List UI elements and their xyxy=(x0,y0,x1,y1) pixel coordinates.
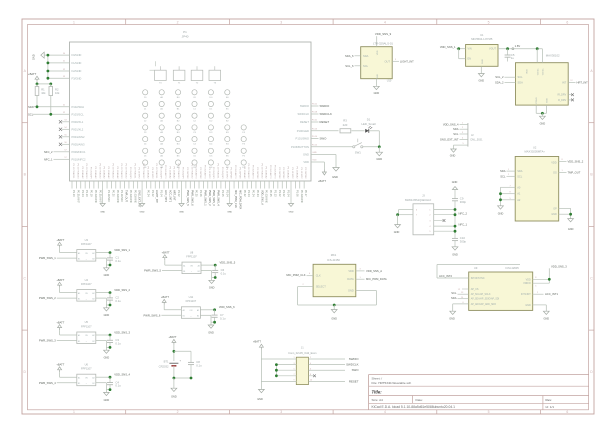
junction C5 tap xyxy=(506,47,509,50)
svg-text:P0.25: P0.25 xyxy=(269,190,272,197)
wire gnd pin xyxy=(201,270,212,272)
svg-text:ACC_INT1: ACC_INT1 xyxy=(545,292,558,296)
ground (P1) xyxy=(333,168,339,172)
svg-text:R_DRV: R_DRV xyxy=(558,99,566,102)
wire F0-F3 gnd bus xyxy=(44,54,69,56)
ground (U5) xyxy=(105,347,107,350)
resistor R3 xyxy=(311,130,339,132)
wire gnd pin xyxy=(200,314,211,316)
wire A0 A1 A2 to gnd xyxy=(501,186,516,188)
ground (SW1) xyxy=(378,147,380,152)
svg-text:P010/NFC2: P010/NFC2 xyxy=(72,157,87,161)
svg-text:P1.03/TRACE2: P1.03/TRACE2 xyxy=(190,164,193,180)
svg-text:SWDIO: SWDIO xyxy=(349,357,360,361)
junction J1 gnd pins xyxy=(275,363,278,366)
svg-text:P1.11/NFC: P1.11/NFC xyxy=(120,190,123,202)
svg-text:SWDCLK: SWDCLK xyxy=(346,363,358,367)
svg-text:B2: B2 xyxy=(198,271,200,273)
svg-text:R1: R1 xyxy=(41,87,45,91)
svg-text:P0.06/UART0: P0.06/UART0 xyxy=(252,165,255,179)
svg-text:GNG_EXT_INT: GNG_EXT_INT xyxy=(138,190,141,208)
svg-text:P1.15/SPI2: P1.15/SPI2 xyxy=(151,167,153,179)
svg-text:PWR_SWS_1: PWR_SWS_1 xyxy=(39,256,56,260)
svg-text:RESET: RESET xyxy=(320,120,330,124)
svg-text:P0.29/PDM: P0.29/PDM xyxy=(282,167,284,178)
svg-text:0.1u: 0.1u xyxy=(115,342,121,346)
svg-text:P1.13: P1.13 xyxy=(72,190,75,197)
svg-text:VDD_SNS_1: VDD_SNS_1 xyxy=(114,248,130,252)
svg-text:P1.05: P1.05 xyxy=(221,190,224,197)
svg-text:VLED+: VLED+ xyxy=(537,68,539,76)
svg-text:Size: A4: Size: A4 xyxy=(372,398,384,402)
svg-text:P0.29/PDM: P0.29/PDM xyxy=(199,167,201,178)
svg-text:1.8V: 1.8V xyxy=(515,44,521,48)
svg-text:2: 2 xyxy=(177,20,179,24)
svg-text:P0.19: P0.19 xyxy=(90,190,93,197)
svg-text:1: 1 xyxy=(73,410,75,414)
wire J3 left pins xyxy=(399,209,413,211)
svg-text:SCL: SCL xyxy=(500,174,506,178)
switch SW1 xyxy=(311,146,353,148)
svg-text:ACC_INT1: ACC_INT1 xyxy=(168,190,171,203)
sensor U2 MAX30205 xyxy=(515,157,559,222)
svg-text:FPF1107: FPF1107 xyxy=(81,324,92,328)
svg-text:PGND: PGND xyxy=(536,97,538,104)
node VDD_SNS_1 xyxy=(96,252,110,254)
svg-text:P0.06/UART0: P0.06/UART0 xyxy=(203,165,206,179)
svg-text:GND: GND xyxy=(312,152,317,154)
svg-text:GND: GND xyxy=(376,157,382,161)
ground (U1) xyxy=(480,66,482,73)
svg-text:PWR_SWS_3: PWR_SWS_3 xyxy=(39,339,56,343)
svg-text:7: 7 xyxy=(293,374,294,376)
svg-text:P0.06/UART0: P0.06/UART0 xyxy=(164,165,167,179)
wire vin xyxy=(59,248,61,253)
svg-text:SDA_2: SDA_2 xyxy=(495,80,504,84)
svg-text:CR2032: CR2032 xyxy=(159,364,169,368)
svg-text:P0.13/ANA2: P0.13/ANA2 xyxy=(295,166,298,179)
svg-text:P0.24: P0.24 xyxy=(256,190,259,197)
sensor U9 ICM-42605 xyxy=(469,272,533,310)
wire gnd pin xyxy=(96,340,107,342)
svg-text:P0.02/AIN0: P0.02/AIN0 xyxy=(300,190,303,203)
svg-text:FPF1107: FPF1107 xyxy=(81,282,92,286)
svg-text:P1.03/TRACE2: P1.03/TRACE2 xyxy=(247,164,250,180)
regulator U1 MIC5504 xyxy=(466,45,498,67)
svg-text:P1.10/TRACE1: P1.10/TRACE1 xyxy=(133,164,136,180)
svg-text:A1: A1 xyxy=(183,309,185,312)
svg-text:GND: GND xyxy=(100,212,105,214)
svg-text:P1.15/SPI2: P1.15/SPI2 xyxy=(138,167,140,179)
svg-text:VDD: VDD xyxy=(526,278,531,281)
svg-text:+BATT: +BATT xyxy=(318,179,326,183)
svg-text:MAX30205MTA+: MAX30205MTA+ xyxy=(525,149,546,153)
svg-text:KiCad E.D.A. kicad 5.1.10-88a: KiCad E.D.A. kicad 5.1.10-88a5d61e5088ub… xyxy=(372,405,456,409)
svg-text:P1.04: P1.04 xyxy=(247,190,250,197)
capacitor C10 xyxy=(452,237,458,239)
svg-text:VDD: VDD xyxy=(527,69,529,74)
svg-text:PWR_SWS_4: PWR_SWS_4 xyxy=(217,190,220,206)
svg-text:SCL: SCL xyxy=(28,113,34,117)
svg-text:ACC_INT2: ACC_INT2 xyxy=(439,274,452,278)
svg-text:P0.06/UART0: P0.06/UART0 xyxy=(234,165,237,179)
svg-text:OS: OS xyxy=(553,170,557,174)
svg-text:P1.15/SPI2: P1.15/SPI2 xyxy=(208,167,210,179)
svg-text:SDA: SDA xyxy=(517,169,523,173)
svg-text:FPF1107: FPF1107 xyxy=(186,299,197,303)
svg-text:P1.00/TRACE0: P1.00/TRACE0 xyxy=(76,164,79,180)
svg-text:P000/XL1: P000/XL1 xyxy=(72,120,84,124)
svg-text:GND: GND xyxy=(332,175,338,179)
svg-text:Conn_02x05_Odd_Even: Conn_02x05_Odd_Even xyxy=(288,351,317,355)
svg-text:+BATT: +BATT xyxy=(169,335,177,339)
wire pullup rail xyxy=(37,83,51,85)
svg-text:P0.29/PDM: P0.29/PDM xyxy=(304,167,306,178)
node VDD_SNS_5 xyxy=(201,264,215,266)
svg-text:P0.21: P0.21 xyxy=(312,120,318,122)
wire SELECT to gnd xyxy=(298,286,314,288)
junction NFC bus xyxy=(454,208,457,211)
svg-text:VLED+: VLED+ xyxy=(543,68,545,76)
svg-text:FPF1107: FPF1107 xyxy=(81,367,92,371)
svg-text:GND: GND xyxy=(450,155,456,158)
svg-text:4: 4 xyxy=(384,410,386,414)
svg-text:PWR_SWS_6: PWR_SWS_6 xyxy=(190,190,193,206)
svg-text:U4: U4 xyxy=(85,278,89,282)
svg-text:MIC_PDM_DATA: MIC_PDM_DATA xyxy=(366,277,387,281)
svg-text:P0.13/ANA2: P0.13/ANA2 xyxy=(265,166,268,179)
svg-text:P0.02/AIN0: P0.02/AIN0 xyxy=(94,190,97,203)
svg-text:P1.00/TRACE0: P1.00/TRACE0 xyxy=(120,164,123,180)
svg-text:A2: A2 xyxy=(517,198,521,202)
svg-text:P0.02/AIN0: P0.02/AIN0 xyxy=(129,190,132,203)
svg-text:PWR_SWS_2: PWR_SWS_2 xyxy=(39,296,56,300)
svg-text:NFC_2: NFC_2 xyxy=(44,150,53,154)
capacitor C4 xyxy=(109,377,111,382)
svg-text:+BATT: +BATT xyxy=(56,238,64,242)
svg-text:B1: B1 xyxy=(183,271,185,273)
svg-text:P0.13/ANA2: P0.13/ANA2 xyxy=(173,166,176,179)
svg-text:U5: U5 xyxy=(85,320,89,324)
svg-text:INT1/INT: INT1/INT xyxy=(521,293,531,296)
P1 castellated pad grid xyxy=(143,90,148,95)
svg-text:P0.31/AIN7: P0.31/AIN7 xyxy=(98,190,101,203)
ground (C10) xyxy=(452,247,458,250)
svg-text:HRT_INT: HRT_INT xyxy=(577,80,589,84)
svg-text:P0.29/PDM: P0.29/PDM xyxy=(256,167,258,178)
svg-text:P0.29/PDM: P0.29/PDM xyxy=(186,167,188,178)
svg-text:PWR_SWS_4: PWR_SWS_4 xyxy=(39,381,56,385)
svg-text:U11: U11 xyxy=(189,295,194,299)
svg-text:P1.03/TRACE2: P1.03/TRACE2 xyxy=(125,164,128,180)
svg-text:F3/GND: F3/GND xyxy=(72,76,82,80)
svg-text:P0.26/QSPI: P0.26/QSPI xyxy=(221,167,223,179)
junction xyxy=(378,145,381,148)
svg-text:P0.13/ANA2: P0.13/ANA2 xyxy=(146,166,149,179)
svg-text:VDD_SNS_2: VDD_SNS_2 xyxy=(114,288,130,292)
svg-text:GND: GND xyxy=(171,395,177,398)
wire EN xyxy=(458,49,460,59)
wire VDD/VDDIO xyxy=(533,278,550,280)
svg-text:GND: GND xyxy=(479,79,485,82)
svg-text:FPF1107: FPF1107 xyxy=(186,255,197,259)
ground (U9 left) xyxy=(450,311,456,314)
ground (MK1) xyxy=(333,305,335,310)
svg-text:P0.02/AIN0: P0.02/AIN0 xyxy=(133,190,136,203)
svg-text:300p: 300p xyxy=(460,240,467,244)
svg-text:F2/GND: F2/GND xyxy=(72,69,82,73)
svg-text:MIC_PDM_CLK: MIC_PDM_CLK xyxy=(234,190,237,208)
svg-text:PWR_SWS_5: PWR_SWS_5 xyxy=(144,269,161,273)
svg-text:P100/LED: P100/LED xyxy=(297,129,309,133)
svg-text:VDD_SNS_3: VDD_SNS_3 xyxy=(551,264,567,268)
svg-text:SCL_6: SCL_6 xyxy=(345,64,354,68)
svg-text:P0.20: P0.20 xyxy=(111,190,114,197)
svg-text:SDA: SDA xyxy=(453,127,459,131)
wire gnd pin xyxy=(96,382,107,384)
svg-text:A1: A1 xyxy=(78,376,80,379)
svg-text:A2: A2 xyxy=(197,309,199,312)
svg-text:P1.02: P1.02 xyxy=(278,190,281,197)
connector P1 (JP40 module) xyxy=(70,42,312,181)
svg-text:GND: GND xyxy=(179,212,184,214)
svg-text:P1.04: P1.04 xyxy=(81,190,84,197)
svg-text:1: 1 xyxy=(73,20,75,24)
svg-text:P0.18: P0.18 xyxy=(312,112,318,114)
svg-text:INT2/FSYNC: INT2/FSYNC xyxy=(471,277,485,280)
svg-text:P1.11/NFC: P1.11/NFC xyxy=(107,190,110,202)
svg-text:P0.13/ANA2: P0.13/ANA2 xyxy=(107,166,110,179)
P1 test pads T0-T3 xyxy=(155,70,167,80)
svg-text:1u: 1u xyxy=(511,56,515,60)
svg-text:P0.25: P0.25 xyxy=(195,190,198,197)
svg-text:B1: B1 xyxy=(78,298,80,300)
svg-text:A1: A1 xyxy=(517,192,521,196)
svg-text:B2: B2 xyxy=(92,258,94,260)
svg-text:+BATT: +BATT xyxy=(28,72,37,76)
svg-text:U2: U2 xyxy=(533,145,537,149)
junction xyxy=(396,213,399,216)
svg-text:GND: GND xyxy=(140,212,145,214)
svg-text:AP_SDA/AP_SDIO/AP_SDI: AP_SDA/AP_SDIO/AP_SDI xyxy=(471,298,500,301)
svg-text:DNL_5031: DNL_5031 xyxy=(471,139,484,142)
node VDD_SNS_6 xyxy=(200,309,214,311)
svg-text:VDD: VDD xyxy=(551,160,557,164)
svg-text:P1.15/SPI2: P1.15/SPI2 xyxy=(291,167,293,179)
svg-text:R3: R3 xyxy=(343,119,347,123)
connector J3 NFC xyxy=(413,204,434,235)
svg-text:B2: B2 xyxy=(92,383,94,385)
svg-text:S9453-05S1Q1ECHLF: S9453-05S1Q1ECHLF xyxy=(405,198,432,202)
wire VLED supplies xyxy=(536,49,538,63)
svg-text:DATA: DATA xyxy=(347,277,354,281)
svg-text:P1.03/TRACE2: P1.03/TRACE2 xyxy=(98,164,101,180)
svg-text:BT1: BT1 xyxy=(164,360,169,364)
svg-text:VOUT: VOUT xyxy=(489,48,496,51)
junction A pins xyxy=(499,192,502,195)
svg-text:SDA: SDA xyxy=(363,54,369,58)
svg-text:P1.15/SPI2: P1.15/SPI2 xyxy=(225,167,227,179)
svg-text:RESET: RESET xyxy=(349,379,359,383)
svg-text:AP_SCL/AP_SCLK: AP_SCL/AP_SCLK xyxy=(471,293,491,296)
junction gnd rail xyxy=(333,304,336,307)
svg-text:0.1u: 0.1u xyxy=(115,259,121,263)
ground (U10) xyxy=(375,79,377,87)
svg-text:A1: A1 xyxy=(78,252,80,255)
svg-text:P0.13/ANA2: P0.13/ANA2 xyxy=(243,166,246,179)
svg-text:ICM-42605: ICM-42605 xyxy=(506,266,520,270)
svg-text:VDD_SNS_A: VDD_SNS_A xyxy=(260,190,263,205)
svg-text:A1: A1 xyxy=(183,264,185,267)
wire LED to junction xyxy=(370,130,380,132)
svg-text:1: 1 xyxy=(293,357,294,359)
svg-text:P0.06/UART0: P0.06/UART0 xyxy=(269,165,272,179)
svg-text:SWO: SWO xyxy=(320,137,328,141)
wire J1 left rail xyxy=(260,350,262,390)
wire vin xyxy=(164,260,166,265)
junction xyxy=(109,304,112,307)
svg-text:P1.04: P1.04 xyxy=(225,190,228,197)
wire vin xyxy=(59,288,61,293)
svg-text:P102/SDA: P102/SDA xyxy=(72,105,85,109)
svg-text:A2: A2 xyxy=(92,334,94,337)
wire AP_ADO to gnd xyxy=(453,303,469,305)
svg-text:ICS-41350: ICS-41350 xyxy=(327,258,340,262)
power +BATT (P1 VDD) xyxy=(311,161,324,163)
svg-text:Rev:: Rev: xyxy=(546,398,553,402)
svg-text:B2: B2 xyxy=(92,341,94,343)
svg-text:P103/SCL: P103/SCL xyxy=(72,112,85,116)
ground (J1) xyxy=(259,389,265,392)
svg-text:MIC_PDM_CLK: MIC_PDM_CLK xyxy=(286,273,305,277)
svg-text:A2: A2 xyxy=(92,292,94,295)
ground (U6) xyxy=(105,390,107,393)
svg-text:P0.13: P0.13 xyxy=(312,128,318,130)
svg-text:GP: GP xyxy=(553,207,557,210)
junction xyxy=(214,276,217,279)
svg-text:GND: GND xyxy=(498,212,504,215)
svg-text:VDD_SNS_4: VDD_SNS_4 xyxy=(114,373,130,377)
svg-text:VDD_SNS_5: VDD_SNS_5 xyxy=(220,261,236,265)
svg-text:P1.02: P1.02 xyxy=(282,190,285,197)
capacitor C9 xyxy=(454,190,456,199)
svg-text:NFC_1: NFC_1 xyxy=(459,222,468,226)
svg-text:P101/SWO: P101/SWO xyxy=(296,137,309,141)
svg-text:PWR_SWS_6: PWR_SWS_6 xyxy=(144,313,161,317)
wire battery bottom xyxy=(174,377,191,379)
op-amp U10 (LTR-329ALS-01 light sensor) xyxy=(361,47,393,79)
svg-text:+BATT: +BATT xyxy=(162,251,170,255)
svg-text:P106/BUTTON: P106/BUTTON xyxy=(291,145,309,149)
svg-text:SWDCLK: SWDCLK xyxy=(320,112,332,116)
svg-text:5: 5 xyxy=(488,410,490,414)
svg-text:GND: GND xyxy=(568,228,574,231)
junction VDD rail xyxy=(536,47,539,50)
svg-text:10k: 10k xyxy=(55,91,60,95)
svg-text:GND: GND xyxy=(209,287,215,290)
svg-text:P1.00/TRACE0: P1.00/TRACE0 xyxy=(177,164,180,180)
svg-text:U9: U9 xyxy=(474,266,478,270)
svg-text:6: 6 xyxy=(566,410,568,414)
svg-text:B2: B2 xyxy=(197,316,199,318)
svg-text:PWR_SWS_2: PWR_SWS_2 xyxy=(208,190,211,206)
svg-text:VDDIO: VDDIO xyxy=(523,282,531,285)
wire SWDCLK xyxy=(311,113,319,115)
wire gnd pin xyxy=(96,297,107,299)
svg-text:R2: R2 xyxy=(55,87,59,91)
resistor R2 xyxy=(50,84,52,87)
svg-text:P0.02/AIN0: P0.02/AIN0 xyxy=(116,190,119,203)
svg-text:RESET: RESET xyxy=(300,120,309,124)
svg-text:IR_DRV: IR_DRV xyxy=(557,94,566,97)
svg-text:P1.04: P1.04 xyxy=(160,190,163,197)
svg-text:P0.24: P0.24 xyxy=(252,190,255,197)
wire gnd pin xyxy=(96,257,107,259)
svg-text:SW1: SW1 xyxy=(355,150,362,154)
title block xyxy=(369,374,589,376)
wire vin xyxy=(59,372,61,377)
svg-text:P0.13/ANA2: P0.13/ANA2 xyxy=(81,166,84,179)
svg-text:3: 3 xyxy=(280,20,282,24)
svg-text:P0.14: P0.14 xyxy=(312,136,318,138)
svg-text:File: HRT5340-Wearable.sch: File: HRT5340-Wearable.sch xyxy=(372,381,412,385)
capacitor C1 xyxy=(109,253,111,258)
svg-text:GND: GND xyxy=(104,274,110,277)
svg-text:P0.15: P0.15 xyxy=(312,144,318,146)
wire P1 GND pin xyxy=(311,154,336,156)
svg-text:P0.26/QSPI: P0.26/QSPI xyxy=(129,167,131,179)
junction xyxy=(457,47,460,50)
svg-text:LED_Small: LED_Small xyxy=(362,122,376,126)
svg-text:GND: GND xyxy=(452,253,458,256)
junction SDA xyxy=(36,105,39,108)
ground (U8) xyxy=(211,278,213,281)
junction dots F bus xyxy=(47,54,50,57)
svg-text:GND: GND xyxy=(104,399,110,402)
svg-text:3: 3 xyxy=(293,363,294,365)
svg-text:5: 5 xyxy=(293,368,294,370)
svg-text:B2: B2 xyxy=(92,298,94,300)
svg-text:U8: U8 xyxy=(190,250,194,254)
svg-text:GND: GND xyxy=(551,213,557,216)
svg-text:VDD_SNS_6: VDD_SNS_6 xyxy=(219,305,235,309)
svg-text:P1.03/TRACE2: P1.03/TRACE2 xyxy=(260,164,263,180)
svg-text:F0/GND: F0/GND xyxy=(72,53,82,57)
capacitor C7 xyxy=(214,310,216,315)
svg-text:HRT_INT: HRT_INT xyxy=(173,190,176,201)
svg-text:OUT: OUT xyxy=(385,59,391,63)
svg-text:P005/AIN3: P005/AIN3 xyxy=(72,142,86,146)
svg-text:A2: A2 xyxy=(198,264,200,267)
svg-text:3: 3 xyxy=(280,410,282,414)
svg-text:VDD: VDD xyxy=(348,269,354,273)
wire vin xyxy=(163,305,165,310)
svg-text:MK1: MK1 xyxy=(331,253,337,257)
svg-text:P1.10/TRACE1: P1.10/TRACE1 xyxy=(217,164,220,180)
svg-text:Id: 1/1: Id: 1/1 xyxy=(546,405,555,409)
svg-text:EN: EN xyxy=(468,58,472,61)
svg-text:GND: GND xyxy=(377,74,379,79)
svg-text:U10: U10 xyxy=(387,80,392,83)
ground (U3) xyxy=(105,265,107,268)
svg-text:Sheet: /: Sheet: / xyxy=(372,376,383,380)
svg-text:2: 2 xyxy=(177,410,179,414)
P1 left NC pins xyxy=(62,121,70,123)
svg-text:VDD_SNS_9: VDD_SNS_9 xyxy=(375,32,392,36)
svg-text:VDD: VDD xyxy=(377,50,379,55)
node SWDIO (J1) xyxy=(308,358,345,360)
junction xyxy=(173,350,176,353)
